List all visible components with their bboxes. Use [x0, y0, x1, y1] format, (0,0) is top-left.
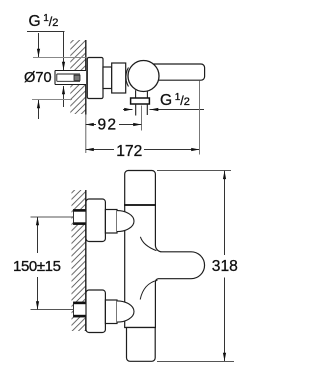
union nut (side view)	[103, 67, 112, 89]
dim 150±15	[13, 217, 74, 310]
wall (upper, hatched section)	[70, 40, 85, 114]
Ø70 arrow top	[38, 33, 40, 57]
body top cap	[125, 171, 156, 206]
valve body (side view)	[112, 63, 126, 93]
svg-text:150±15: 150±15	[13, 258, 61, 275]
union nut bottom (front view)	[105, 300, 117, 324]
handle flange arc behind circle	[126, 68, 129, 87]
wall face line (lower)	[85, 190, 87, 331]
svg-text:172: 172	[116, 143, 142, 160]
outlet pipe G 1/2	[136, 104, 148, 116]
wall thread box top (behind wall)	[74, 210, 87, 225]
spout rear edge top curve	[140, 237, 156, 251]
thick joint line cap/body	[124, 204, 156, 206]
svg-text:318: 318	[212, 258, 238, 275]
shower outlet neck below circle	[136, 90, 148, 98]
union nut top (front view)	[105, 210, 117, 234]
dim 172	[86, 143, 200, 160]
svg-text:92: 92	[98, 117, 118, 134]
wall (lower, hatched section)	[72, 190, 86, 331]
wall face line (upper)	[85, 40, 87, 115]
body bottom cap	[127, 328, 156, 362]
inlet pipe behind wall (G 1/2 thread, side view)	[55, 71, 86, 85]
leader underline for middle G 1/2	[150, 109, 205, 111]
dim 318	[157, 171, 238, 362]
Ø70 extension line bottom	[32, 99, 72, 101]
body with spout (plan outline)	[125, 205, 205, 328]
extension line from wall face down to dims	[85, 115, 87, 154]
svg-text:Ø70: Ø70	[24, 70, 52, 86]
Ø70 arrow bottom	[38, 100, 40, 119]
escutcheon top (front view)	[86, 199, 105, 242]
lever handle (side view)	[148, 64, 205, 80]
middle G 1/2 arrows at outlet pipe	[123, 109, 133, 111]
outlet centerline	[141, 106, 143, 131]
Ø70 extension line top	[33, 57, 86, 59]
union dome top (covers body edge)	[117, 211, 134, 232]
leader for G 1/2 top	[27, 31, 65, 33]
wall thread box bottom (behind wall)	[74, 302, 87, 317]
extension line from lever end	[199, 81, 201, 155]
spout rear edge bottom curve	[140, 280, 157, 299]
escutcheon Ø70 (side view)	[87, 58, 103, 99]
handle knob (circle, side view)	[128, 61, 159, 92]
dim 92	[86, 117, 142, 134]
union dome bottom (covers body edge)	[117, 301, 134, 322]
outlet ring nut	[131, 98, 150, 104]
G 1/2 lower arrow pointing up at pipe bottom	[63, 86, 65, 107]
escutcheon bottom (front view)	[86, 290, 105, 333]
